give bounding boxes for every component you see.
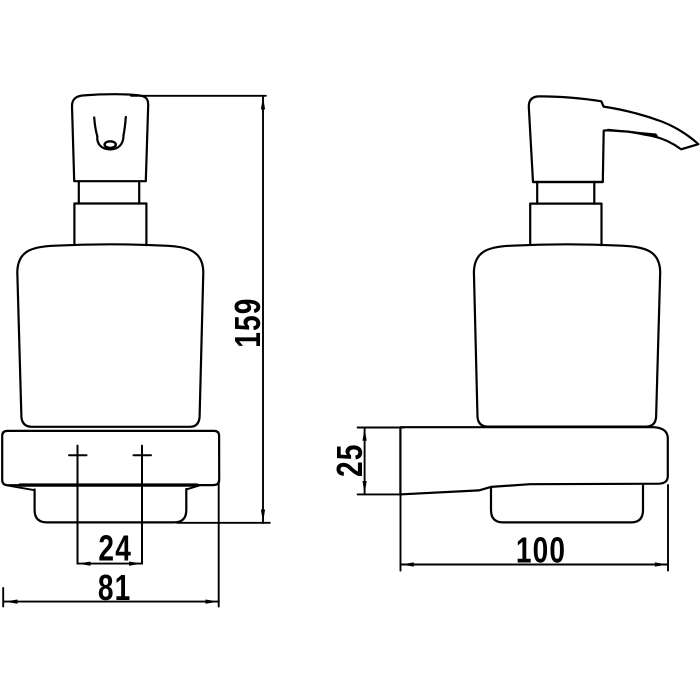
- svg-text:100: 100: [516, 530, 566, 570]
- svg-text:25: 25: [330, 443, 370, 477]
- svg-text:24: 24: [98, 528, 132, 568]
- svg-text:81: 81: [98, 568, 132, 608]
- svg-text:159: 159: [228, 297, 268, 347]
